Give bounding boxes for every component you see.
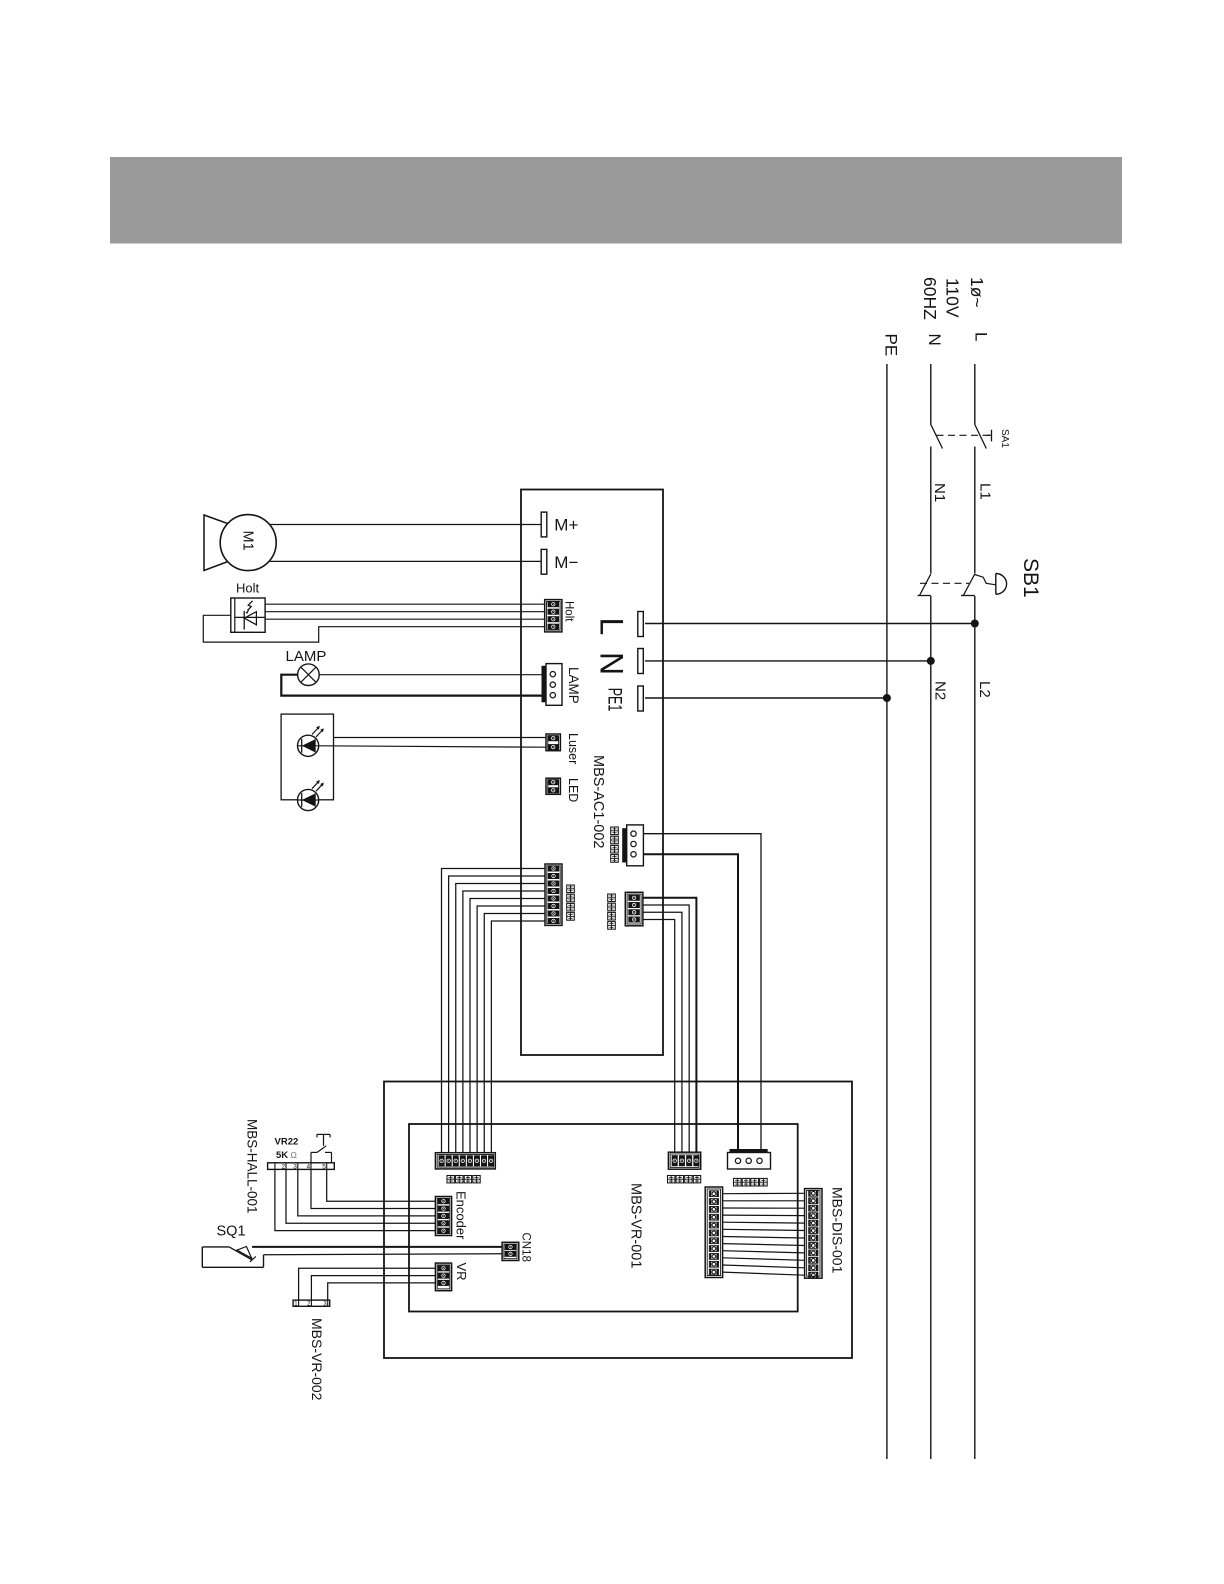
- wire Holt pin2: [265, 611, 545, 613]
- svg-text:Encoder: Encoder: [454, 1191, 469, 1240]
- connector panel-comm 8pin (AC1): [545, 864, 574, 925]
- connector Holt: [545, 600, 575, 632]
- wire L rail upper: [974, 364, 976, 425]
- svg-text:Holt: Holt: [236, 581, 260, 596]
- wire Holt pin4 (loop): [203, 615, 544, 642]
- wire bundle display (12): [723, 1193, 805, 1275]
- wire LAMP pin3: [281, 675, 541, 696]
- wire M-: [270, 560, 541, 562]
- connector panel-power (AC1): [611, 825, 644, 866]
- connector VR: [435, 1263, 469, 1291]
- board MBS-AC1-002 outline: [521, 490, 663, 1056]
- svg-text:MBS-HALL-001: MBS-HALL-001: [245, 1119, 260, 1214]
- node N label: [925, 334, 944, 346]
- node PE label: [882, 334, 901, 357]
- svg-text:VR22: VR22: [275, 1137, 299, 1148]
- svg-text:CN18: CN18: [520, 1233, 532, 1262]
- wire N feed to board: [645, 660, 931, 662]
- connector panel-comm 4pin (VR-001): [668, 1152, 701, 1183]
- wire bundle panel-comm 8: [442, 869, 546, 1153]
- connector Encoder: [435, 1191, 468, 1240]
- wire L1 segment: [975, 447, 994, 574]
- switch SB1 (double pole push button): [918, 558, 1043, 598]
- svg-text:SA1: SA1: [999, 429, 1010, 448]
- svg-text:3: 3: [293, 1164, 297, 1171]
- svg-text:LED: LED: [566, 778, 580, 802]
- connector display header 11pin: [705, 1187, 722, 1278]
- wire L feed to board: [645, 623, 975, 625]
- terminal M+: [541, 512, 578, 537]
- svg-text:MBS-AC1-002: MBS-AC1-002: [590, 755, 606, 848]
- wire M+: [270, 524, 542, 526]
- motor M1: [204, 515, 276, 571]
- wire Luser pin1: [334, 737, 547, 739]
- svg-text:Ω: Ω: [291, 1150, 297, 1160]
- svg-text:5: 5: [322, 1164, 326, 1171]
- laser diode box: [281, 714, 333, 800]
- svg-text:110V: 110V: [943, 278, 963, 318]
- terminal strip MBS-HALL-001 / VR22 5K: [245, 1119, 335, 1214]
- svg-text:N: N: [594, 652, 630, 675]
- connector LAMP: [542, 664, 582, 706]
- wire LAMP pin1: [319, 674, 541, 676]
- wire bundle VR-002 to VR (3): [299, 1268, 436, 1300]
- svg-text:M1: M1: [240, 531, 256, 551]
- terminal PE1: [604, 686, 643, 711]
- junction N2: [927, 657, 935, 665]
- connector MBS-DIS-001 12pin: [805, 1187, 846, 1278]
- terminal N: [594, 649, 644, 676]
- svg-text:PE: PE: [882, 334, 901, 357]
- svg-text:N1: N1: [931, 483, 948, 502]
- connector panel-comm 8pin (VR-001): [435, 1153, 495, 1183]
- wire L2 rail lower: [975, 596, 993, 1459]
- wire SQ1 to CN18 pin1: [252, 1246, 502, 1248]
- svg-text:VR: VR: [454, 1263, 469, 1281]
- svg-text:M+: M+: [554, 515, 578, 534]
- svg-text:MBS-DIS-001: MBS-DIS-001: [829, 1187, 845, 1274]
- svg-text:LAMP: LAMP: [286, 648, 327, 665]
- switch SA1 (double pole): [931, 425, 1010, 449]
- switch SQ1 (limit switch): [202, 1224, 263, 1268]
- board MBS-VR-001 outline: [409, 1124, 798, 1312]
- wire N rail upper: [930, 364, 932, 425]
- svg-text:60HZ: 60HZ: [920, 277, 940, 320]
- svg-text:N2: N2: [931, 681, 948, 700]
- connector panel-comm 4pin (AC1): [608, 892, 643, 929]
- wire PE feed to board: [645, 697, 887, 699]
- svg-text:M−: M−: [554, 553, 578, 572]
- svg-text:MBS-VR-001: MBS-VR-001: [628, 1183, 644, 1268]
- connector Luser: [546, 733, 580, 764]
- lamp LAMP: [286, 648, 327, 686]
- svg-text:LAMP: LAMP: [566, 667, 581, 704]
- svg-text:Holt: Holt: [563, 601, 575, 622]
- connector panel-power (VR-001): [728, 1149, 771, 1186]
- svg-text:2: 2: [282, 1164, 286, 1171]
- wire SQ1 to CN18 pin2: [264, 1254, 503, 1255]
- laser diode D2: [298, 780, 324, 811]
- terminal M-: [541, 549, 578, 574]
- svg-text:5K: 5K: [276, 1150, 288, 1161]
- node L (supply phase label): [920, 277, 991, 341]
- terminal L: [594, 612, 644, 637]
- wire PE rail: [886, 364, 888, 1459]
- svg-text:PE1: PE1: [604, 688, 625, 712]
- svg-text:4: 4: [307, 1164, 311, 1171]
- wire bundle HALL to Encoder (5): [275, 1169, 436, 1230]
- panel assembly outer box: [384, 1082, 852, 1359]
- wire panel-power 3: [643, 854, 738, 1149]
- svg-text:N: N: [925, 334, 944, 346]
- wire bundle panel-comm 4: [643, 898, 697, 1153]
- svg-text:1ø~: 1ø~: [967, 277, 987, 308]
- svg-text:Luser: Luser: [566, 733, 580, 764]
- wire N1 segment: [931, 447, 948, 574]
- svg-text:SQ1: SQ1: [217, 1224, 246, 1240]
- wire N2 rail lower: [931, 596, 949, 1459]
- wire Luser pin2: [319, 746, 546, 747]
- junction PE: [883, 694, 891, 702]
- wire Holt pin1: [265, 603, 545, 605]
- header gray bar: [110, 157, 1122, 244]
- junction L2: [971, 620, 979, 628]
- svg-text:L: L: [594, 618, 630, 636]
- connector CN18: [502, 1233, 531, 1262]
- connector LED: [546, 778, 580, 802]
- wire panel-power 1: [643, 834, 761, 1150]
- laser diode D1: [298, 726, 324, 757]
- terminal strip MBS-VR-002: [293, 1300, 330, 1401]
- svg-text:SB1: SB1: [1019, 558, 1042, 598]
- svg-text:L2: L2: [976, 681, 993, 698]
- svg-text:L1: L1: [977, 483, 994, 500]
- wire Holt pin3: [265, 618, 545, 620]
- svg-text:L: L: [972, 332, 991, 341]
- svg-text:MBS-VR-002: MBS-VR-002: [309, 1318, 325, 1401]
- sensor Holt (hall sensor): [231, 581, 265, 633]
